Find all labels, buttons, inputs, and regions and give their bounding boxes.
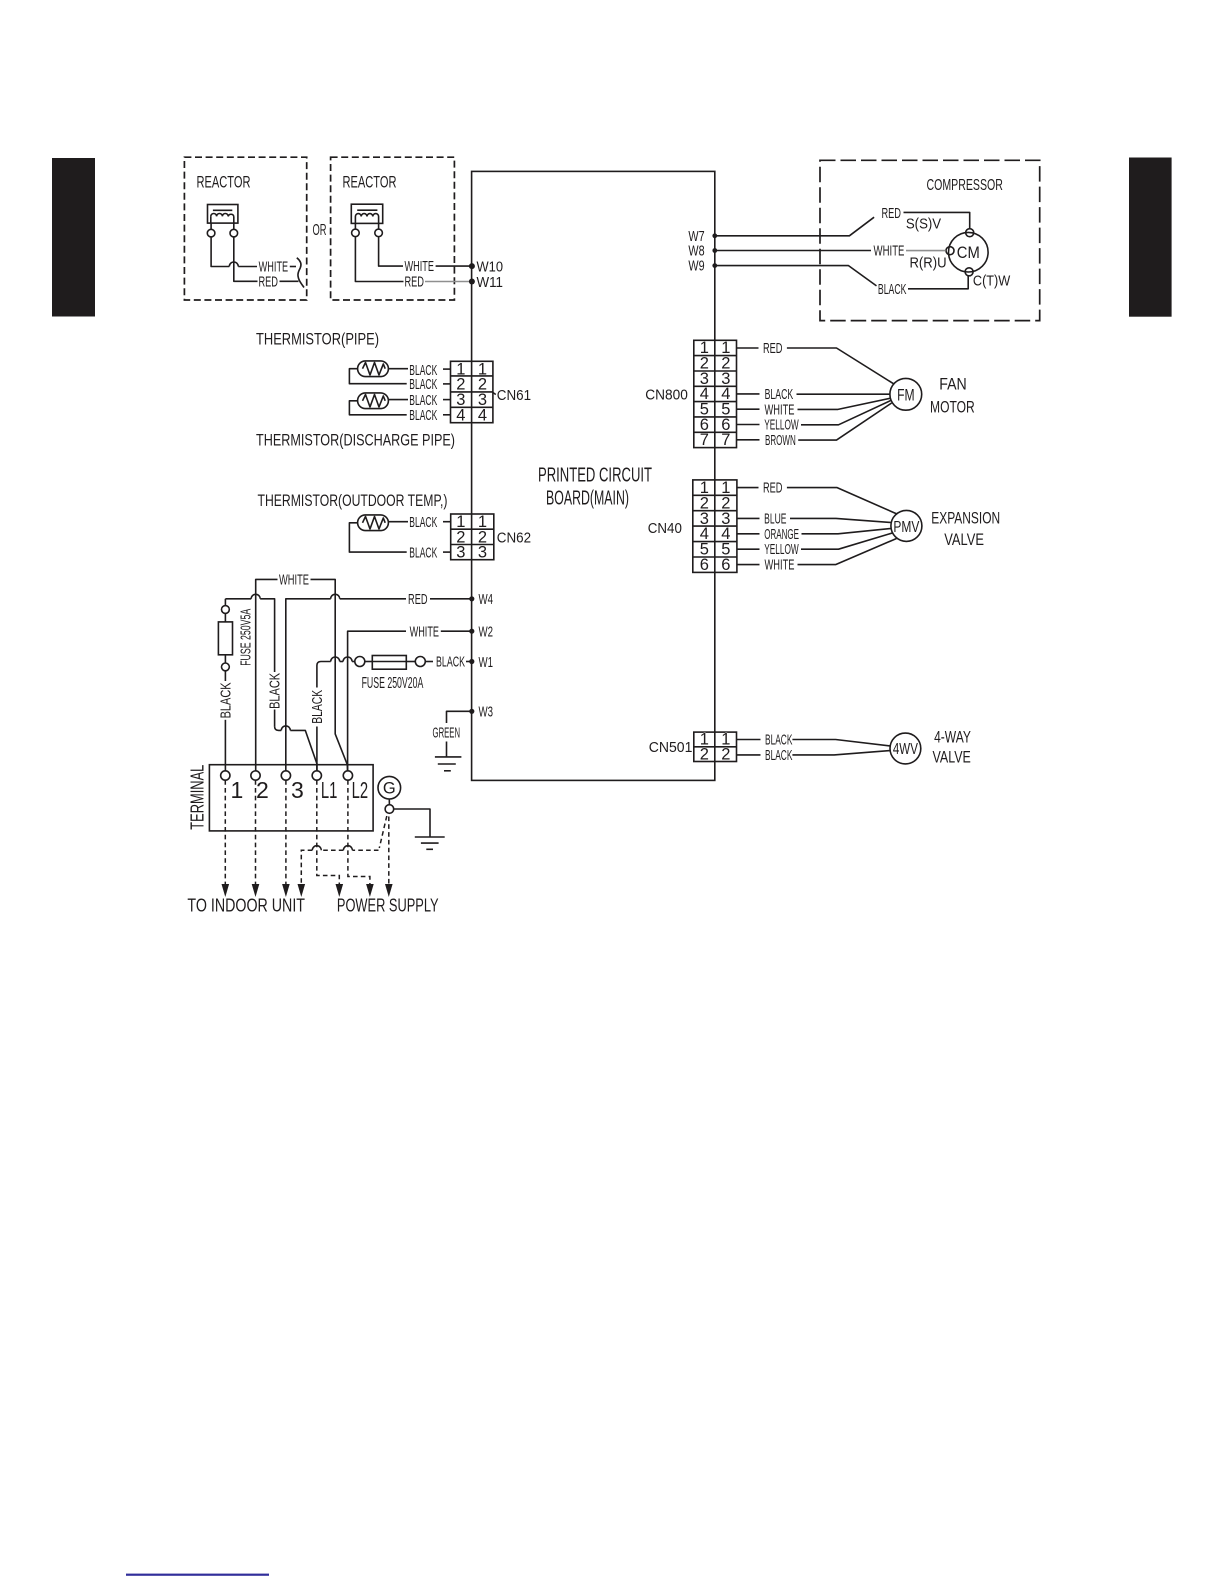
terminal screw L1: [312, 771, 337, 803]
svg-text:W11: W11: [477, 275, 504, 291]
svg-text:4WV: 4WV: [893, 741, 918, 758]
white wire W2 to L2: [348, 623, 472, 770]
wire W9 black to compressor C: [715, 266, 968, 299]
svg-text:COMPRESSOR: COMPRESSOR: [927, 177, 1003, 194]
svg-text:BLACK: BLACK: [409, 407, 437, 424]
svg-text:W1: W1: [479, 655, 494, 671]
wire terminal 1 lower segment: [224, 720, 226, 771]
thermistor (discharge pipe) lead labels BLACK/BLACK pins 3,4: [409, 392, 450, 424]
svg-text:FUSE 250V5A: FUSE 250V5A: [239, 609, 255, 666]
thermistor (outdoor temp) lead labels BLACK pins 1,3: [409, 514, 450, 561]
svg-text:TO INDOOR UNIT: TO INDOOR UNIT: [187, 896, 305, 916]
earth wire from G to ground: [394, 809, 430, 837]
expansion valve wire pin1 RED: [737, 480, 897, 514]
thermistor (pipe) element: [349, 361, 408, 384]
svg-text:3: 3: [456, 544, 465, 562]
svg-text:4: 4: [456, 407, 465, 425]
dashed lead L1 to power supply: [317, 780, 343, 897]
connector CN501: [649, 731, 737, 764]
ground symbol (W3 green): [435, 757, 462, 771]
svg-text:WHITE: WHITE: [279, 572, 309, 589]
svg-text:REACTOR: REACTOR: [197, 173, 251, 192]
svg-text:PMV: PMV: [893, 519, 919, 536]
svg-text:BLACK: BLACK: [310, 690, 326, 724]
label FAN MOTOR: [930, 375, 975, 417]
dashed earth lead to indoor unit: [298, 816, 387, 897]
black wire W1 from L1 via fuse: [317, 657, 355, 771]
svg-text:REACTOR: REACTOR: [343, 173, 397, 192]
terminal screw 1: [221, 771, 244, 803]
red wire W4 to terminal 3: [286, 591, 472, 771]
svg-text:W3: W3: [479, 705, 494, 721]
svg-text:FUSE 250V20A: FUSE 250V20A: [362, 675, 424, 692]
connector CN61: [451, 360, 532, 424]
node W10: [469, 259, 503, 275]
svg-text:CN62: CN62: [497, 530, 531, 547]
svg-text:CN800: CN800: [645, 387, 688, 404]
reactor 2 white lead wire to W10: [379, 237, 472, 275]
reactor 2 terminal pins: [354, 223, 356, 228]
svg-text:G: G: [383, 780, 396, 798]
reactor 1 red lead wire: [234, 237, 299, 290]
svg-text:W2: W2: [479, 625, 494, 641]
svg-text:6: 6: [700, 556, 709, 574]
CM terminal C: [965, 268, 973, 276]
svg-text:WHITE: WHITE: [874, 243, 905, 260]
svg-text:2: 2: [721, 745, 730, 763]
compressor motor CM: [946, 229, 988, 276]
svg-text:WHITE: WHITE: [765, 557, 795, 574]
svg-text:BLACK: BLACK: [409, 514, 437, 531]
svg-text:3: 3: [478, 544, 487, 562]
earth terminal G: [378, 776, 401, 813]
dashed lead L2 to power supply: [348, 780, 374, 897]
4-way valve wire pin2 BLACK: [737, 747, 891, 764]
node W8: [688, 244, 717, 260]
CM terminal S: [966, 229, 974, 237]
svg-text:POWER SUPPLY: POWER SUPPLY: [337, 896, 439, 916]
svg-text:L1: L1: [321, 777, 338, 803]
wire W8 white to compressor R: [715, 243, 946, 260]
svg-text:W7: W7: [688, 229, 704, 245]
svg-text:R(R)U: R(R)U: [909, 254, 946, 271]
expansion valve wire pin3 BLUE: [737, 510, 891, 527]
svg-text:CN501: CN501: [649, 739, 693, 756]
svg-text:6: 6: [721, 556, 730, 574]
svg-text:BLACK: BLACK: [218, 682, 234, 718]
connector CN40: [648, 479, 737, 574]
svg-text:OR: OR: [313, 222, 327, 239]
svg-text:C(T)W: C(T)W: [973, 272, 1011, 289]
svg-text:7: 7: [721, 431, 730, 449]
svg-text:BLACK: BLACK: [765, 747, 792, 764]
terminal screw 3: [281, 771, 304, 803]
svg-text:W8: W8: [688, 244, 704, 260]
label: PRINTED CIRCUIT BOARD(MAIN): [538, 465, 652, 510]
svg-text:FM: FM: [897, 386, 915, 404]
svg-text:BLACK: BLACK: [409, 376, 437, 393]
dashed lead terminal 3 to indoor unit: [282, 780, 290, 897]
svg-text:4: 4: [478, 407, 487, 425]
terminal block: [209, 765, 373, 831]
dashed lead terminal 1 to indoor unit: [222, 780, 230, 897]
node W9: [688, 259, 717, 275]
dashed lead terminal 2 to indoor unit: [252, 780, 260, 897]
fan motor wire pin7 BROWN: [737, 403, 892, 449]
svg-text:EXPANSION: EXPANSION: [931, 508, 1000, 527]
reactor 2 dashed enclosure: [331, 157, 455, 300]
svg-text:W9: W9: [688, 259, 704, 275]
expansion valve wire pin5 YELLOW: [737, 533, 892, 558]
svg-text:1: 1: [231, 777, 244, 803]
terminal screw L2: [343, 771, 368, 803]
svg-text:RED: RED: [881, 205, 901, 222]
printed circuit board (main) outline: [472, 171, 715, 780]
reactor 1 terminal pins: [210, 223, 212, 229]
reactor 1 inductor symbol: [207, 205, 238, 237]
fan motor wire pin1 RED: [737, 340, 895, 384]
fuse 250V5A circuit from terminal 1: [225, 594, 317, 771]
svg-text:RED: RED: [408, 591, 428, 608]
svg-text:BLACK: BLACK: [409, 544, 437, 561]
svg-text:RED: RED: [258, 273, 278, 290]
reactor 2 inductor symbol: [351, 204, 382, 237]
ground symbol (G): [415, 837, 445, 849]
svg-text:WHITE: WHITE: [410, 623, 439, 640]
expansion valve PMV: [891, 510, 922, 541]
svg-text:THERMISTOR(OUTDOOR TEMP,): THERMISTOR(OUTDOOR TEMP,): [258, 491, 448, 510]
svg-text:VALVE: VALVE: [933, 747, 971, 766]
CM terminal R: [946, 247, 954, 255]
svg-text:PRINTED CIRCUIT: PRINTED CIRCUIT: [538, 465, 652, 487]
footer rule: [126, 1574, 269, 1576]
label 4-WAY VALVE: [933, 728, 971, 767]
expansion valve wire pin4 ORANGE: [737, 526, 891, 543]
svg-text:BROWN: BROWN: [765, 432, 796, 449]
svg-text:CN61: CN61: [497, 387, 531, 404]
reactor 1 white lead wire: [211, 237, 296, 276]
svg-text:VALVE: VALVE: [944, 530, 984, 549]
svg-text:W4: W4: [479, 592, 494, 608]
svg-text:GREEN: GREEN: [433, 724, 461, 741]
svg-text:THERMISTOR(PIPE): THERMISTOR(PIPE): [256, 330, 379, 349]
node W11: [469, 275, 503, 291]
fuse F1 250V5A: [218, 599, 232, 681]
node W3: [469, 705, 493, 721]
svg-text:2: 2: [256, 777, 269, 803]
svg-text:THERMISTOR(DISCHARGE PIPE): THERMISTOR(DISCHARGE PIPE): [256, 431, 455, 450]
node W4: [469, 592, 493, 608]
svg-text:CN40: CN40: [648, 520, 682, 537]
compressor dashed enclosure: [820, 160, 1040, 320]
svg-text:BLACK: BLACK: [268, 673, 284, 709]
svg-text:FAN: FAN: [939, 375, 967, 394]
svg-text:BLACK: BLACK: [436, 654, 465, 671]
expansion valve wire pin6 WHITE: [737, 539, 897, 574]
connector CN800: [645, 339, 736, 449]
label EXPANSION VALVE: [931, 508, 1000, 549]
node W7: [688, 229, 717, 245]
green earth wire from W3: [433, 711, 472, 757]
fan motor wire pin6 YELLOW: [737, 401, 891, 434]
thermistor (pipe) lead labels BLACK/BLACK pins 1,2: [409, 362, 450, 393]
node W2: [469, 625, 493, 641]
reactor 1 connection continuation brace: [297, 258, 304, 288]
thermistor (discharge pipe) element: [349, 393, 408, 415]
right page tab bar: [1129, 158, 1172, 317]
dashed earth lead to power supply: [385, 817, 393, 898]
svg-text:2: 2: [700, 745, 709, 763]
svg-text:CM: CM: [957, 243, 980, 262]
svg-text:L2: L2: [352, 777, 369, 803]
CN61 reference label: [493, 393, 496, 395]
svg-text:RED: RED: [763, 340, 783, 357]
node W1: [469, 655, 493, 671]
fan motor wire pin5 WHITE: [737, 398, 891, 418]
svg-text:MOTOR: MOTOR: [930, 398, 975, 417]
thermistor (outdoor temp) element: [349, 515, 408, 552]
svg-text:RED: RED: [404, 274, 424, 291]
terminal screw 2: [251, 771, 269, 803]
4-way valve wire pin1 BLACK: [737, 732, 891, 749]
svg-text:S(S)V: S(S)V: [906, 215, 941, 232]
svg-text:3: 3: [291, 777, 304, 803]
svg-text:BLACK: BLACK: [878, 281, 907, 298]
svg-text:W10: W10: [477, 259, 504, 275]
svg-text:BLACK: BLACK: [765, 386, 794, 403]
svg-text:7: 7: [700, 431, 709, 449]
fan motor FM: [890, 378, 922, 410]
svg-text:RED: RED: [763, 480, 783, 497]
4-way valve 4WV: [890, 733, 921, 764]
reactor 1 dashed enclosure: [184, 157, 306, 300]
connector CN62: [451, 513, 531, 562]
reactor 2 red lead wire to W11: [355, 237, 471, 291]
svg-text:TERMINAL: TERMINAL: [188, 765, 208, 830]
fan motor wire pin4 BLACK: [737, 386, 891, 403]
fuse F2 250V20A: [355, 654, 472, 671]
wire W7 red to compressor S: [715, 205, 970, 236]
svg-text:4-WAY: 4-WAY: [934, 728, 971, 747]
left page tab bar: [52, 158, 95, 317]
svg-text:BOARD(MAIN): BOARD(MAIN): [546, 488, 629, 510]
white jumper wire terminal2 to L2 (top): [256, 572, 348, 771]
